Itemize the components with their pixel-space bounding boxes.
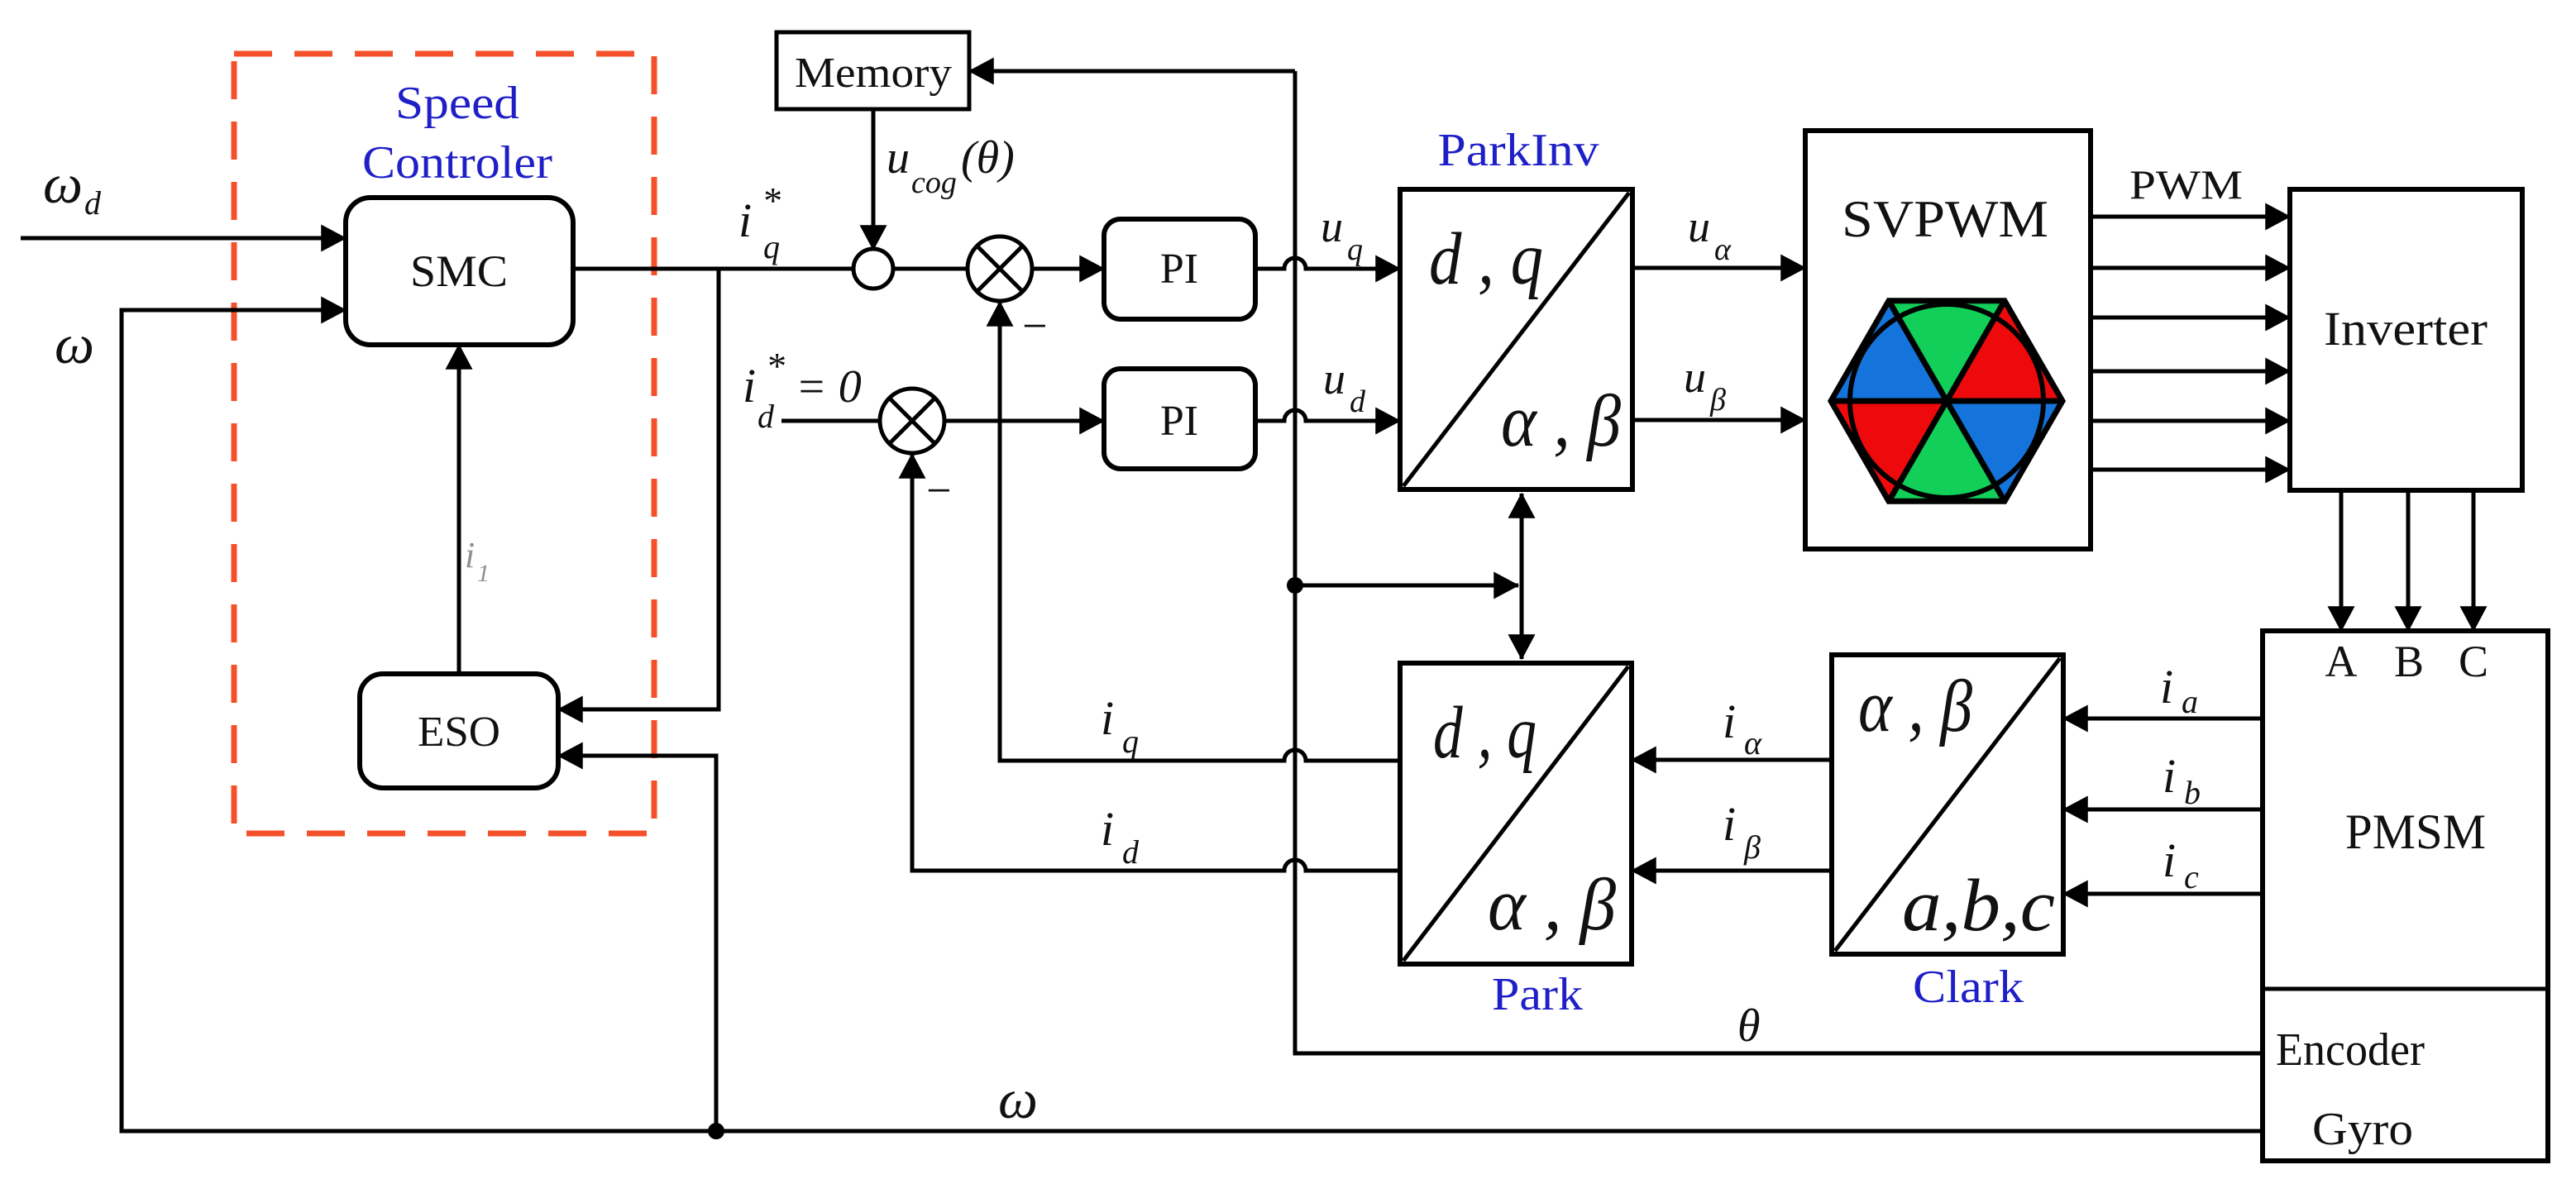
svg-text:i: i	[738, 193, 752, 247]
svg-text:ω: ω	[43, 152, 83, 215]
svg-text:d: d	[1350, 384, 1366, 419]
svg-text:PWM: PWM	[2129, 161, 2243, 208]
svg-text:β: β	[1709, 383, 1726, 418]
wire theta bus (to Memory, down to encoder line)	[1295, 71, 2263, 1053]
block ParkInv	[1400, 189, 1632, 489]
svg-text:*: *	[762, 179, 781, 222]
svg-text:α: α	[1714, 232, 1732, 267]
wire theta branch to Park/ParkInv	[1295, 584, 1518, 588]
svg-text:Gyro: Gyro	[2312, 1104, 2413, 1155]
wire omega branch up into ESO input 2	[558, 756, 716, 1131]
svg-text:u: u	[1323, 354, 1345, 403]
wire multiplier1 to PI1	[1032, 267, 1104, 271]
svg-text:β: β	[1743, 828, 1761, 866]
svg-text:Speed: Speed	[395, 78, 519, 129]
wire SMC output to summing circle	[573, 267, 853, 271]
svg-text:Memory: Memory	[795, 50, 952, 97]
node multiplier circle 2	[880, 389, 944, 453]
block SVPWM	[1805, 131, 2091, 549]
svg-text:PMSM: PMSM	[2345, 804, 2486, 859]
svg-text:u: u	[1688, 202, 1710, 251]
wire circle to multiplier 1	[893, 267, 968, 271]
wire PI2 to ParkInv with hop	[1255, 410, 1400, 421]
svg-text:θ: θ	[1737, 1000, 1761, 1052]
svg-text:α , β: α , β	[1501, 380, 1621, 462]
block Inverter	[2290, 189, 2522, 490]
svg-text:i: i	[2163, 833, 2176, 887]
wire id* input	[781, 419, 880, 423]
wire multiplier2 to PI2	[944, 419, 1104, 423]
svg-text:B: B	[2394, 637, 2424, 686]
SVPWM hexagon sectors	[1831, 301, 2062, 501]
svg-text:d: d	[1122, 833, 1140, 871]
svg-text:A: A	[2325, 637, 2358, 686]
wire omega_d input	[21, 236, 346, 241]
wires PWM lines SVPWM to Inverter	[2091, 217, 2290, 470]
svg-text:α , β: α , β	[1488, 864, 1616, 946]
block PI 2	[1104, 369, 1255, 469]
svg-text:i: i	[2163, 749, 2176, 803]
svg-text:Encoder: Encoder	[2276, 1024, 2425, 1076]
svg-text:α: α	[1744, 724, 1762, 761]
svg-text:d , q: d , q	[1433, 692, 1537, 774]
svg-text:a: a	[2182, 683, 2198, 720]
block Park	[1400, 663, 1632, 964]
svg-text:−: −	[1022, 301, 1047, 351]
SVPWM circle	[1850, 304, 2043, 498]
svg-text:ESO: ESO	[418, 709, 500, 756]
svg-text:−: −	[926, 465, 951, 515]
svg-text:SVPWM: SVPWM	[1842, 189, 2048, 248]
svg-text:(θ): (θ)	[961, 132, 1015, 184]
svg-text:ω: ω	[55, 313, 94, 375]
svg-text:b: b	[2184, 774, 2201, 811]
svg-text:u: u	[887, 132, 910, 184]
svg-text:i: i	[465, 535, 475, 575]
svg-text:c: c	[2184, 858, 2199, 895]
speed controller dashed boundary	[234, 54, 654, 833]
svg-text:d: d	[84, 184, 102, 222]
svg-text:PI: PI	[1160, 246, 1198, 293]
svg-text:i: i	[1101, 691, 1114, 745]
svg-text:Inverter: Inverter	[2324, 302, 2488, 356]
svg-text:i: i	[1723, 797, 1736, 851]
node summing circle	[853, 249, 893, 289]
block Clark	[1832, 655, 2063, 954]
svg-text:α , β: α , β	[1858, 666, 1972, 747]
block PI 1	[1104, 219, 1255, 319]
svg-text:q: q	[1122, 723, 1139, 760]
svg-text:q: q	[1347, 232, 1363, 267]
svg-text:i: i	[1101, 802, 1114, 856]
svg-text:Controler: Controler	[362, 137, 552, 189]
wire theta into Memory	[969, 69, 1295, 74]
svg-text:PI: PI	[1160, 398, 1198, 445]
svg-text:Park: Park	[1492, 969, 1583, 1020]
svg-text:ParkInv: ParkInv	[1438, 125, 1599, 176]
svg-text:SMC: SMC	[410, 246, 508, 296]
svg-text:ω: ω	[998, 1067, 1038, 1130]
wire i_a PMSM to Clark	[2063, 717, 2263, 721]
wire branch from SMC output down into ESO input 1	[558, 269, 719, 709]
svg-text:d: d	[758, 398, 775, 435]
svg-text:i: i	[1723, 695, 1736, 748]
wire PI1 to ParkInv with hop	[1255, 258, 1400, 269]
svg-text:i: i	[743, 359, 756, 413]
wires Inverter to PMSM A B C	[2341, 490, 2473, 631]
wire id feedback from Park to multiplier2 with hop	[912, 454, 1400, 871]
svg-text:C: C	[2459, 637, 2488, 686]
wire ESO to SMC	[457, 345, 461, 674]
wire u_beta ParkInv to SVPWM	[1632, 418, 1805, 422]
svg-text:q: q	[763, 228, 780, 265]
svg-text:u: u	[1321, 202, 1343, 251]
block SMC	[346, 198, 573, 345]
svg-text:d , q: d , q	[1429, 218, 1543, 300]
wire i_alpha Clark to Park	[1632, 758, 1832, 762]
wire ParkInv-Park vertical double arrow	[1520, 494, 1524, 659]
wire i_b PMSM to Clark	[2063, 808, 2263, 812]
wire i_c PMSM to Clark	[2063, 892, 2263, 896]
node multiplier circle 1	[968, 236, 1032, 301]
svg-text:u: u	[1684, 352, 1706, 402]
junction dot on theta bus	[1287, 577, 1303, 594]
wire iq feedback from Park to multiplier1 with hop	[1000, 302, 1400, 761]
svg-text:1: 1	[477, 560, 490, 587]
block Memory	[777, 32, 969, 109]
SVPWM hexagon outline and diagonals	[1831, 301, 2062, 501]
svg-text:= 0: = 0	[796, 361, 862, 413]
junction dot on omega line	[708, 1123, 724, 1139]
svg-text:Clark: Clark	[1913, 962, 2024, 1013]
svg-text:a,b,c: a,b,c	[1902, 865, 2055, 947]
svg-text:*: *	[766, 345, 785, 387]
svg-text:cog: cog	[911, 165, 957, 200]
wire Memory output down to summing circle	[872, 109, 876, 250]
wire i_beta Clark to Park	[1632, 869, 1832, 873]
block PMSM with Encoder/Gyro section	[2263, 631, 2548, 1161]
svg-text:i: i	[2160, 660, 2173, 714]
wire omega feedback (from Gyro, bottom line, up into SMC)	[122, 310, 2263, 1131]
wire u_alpha ParkInv to SVPWM	[1632, 266, 1805, 270]
block ESO	[360, 674, 558, 788]
